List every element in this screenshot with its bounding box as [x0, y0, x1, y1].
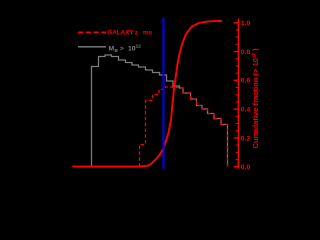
red dashed histogram [140, 87, 228, 167]
svg-text:1.0: 1.0 [241, 20, 251, 27]
red cumulative curve [72, 21, 222, 167]
svg-text:0.2: 0.2 [241, 135, 251, 142]
right axis major ticks [234, 23, 239, 167]
svg-text:ms: ms [143, 29, 153, 36]
svg-text:GALAXY: GALAXY [107, 29, 134, 36]
svg-text:0.6: 0.6 [241, 78, 251, 85]
svg-text:12: 12 [136, 44, 142, 50]
svg-text:0.4: 0.4 [241, 107, 251, 114]
svg-text:>: > [120, 46, 124, 53]
right spine [237, 19, 239, 169]
grey histogram [92, 55, 228, 167]
svg-text:0.8: 0.8 [241, 49, 251, 56]
svg-text:z: z [135, 29, 138, 36]
legend row 1: red dashed [78, 31, 106, 33]
right axis minor ticks [236, 30, 239, 160]
svg-text:Cumulative fraction (> 10¹² ): Cumulative fraction (> 10¹² ) [251, 48, 259, 149]
blue vertical line [163, 18, 165, 170]
svg-text:0.0: 0.0 [241, 164, 251, 171]
legend row 2: grey [78, 46, 106, 48]
right axis tick labels [241, 20, 251, 171]
